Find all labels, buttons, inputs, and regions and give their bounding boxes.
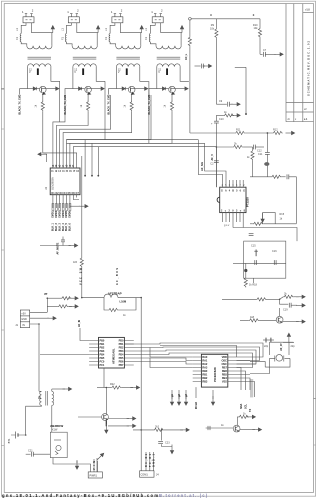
frame zone tick right 1 bbox=[314, 397, 316, 399]
IC U1 pin stubs top bbox=[53, 162, 77, 168]
vertical drop x267 bbox=[266, 133, 268, 152]
module left wire + junction bbox=[233, 262, 244, 264]
svg-text:RB7: RB7 bbox=[222, 365, 228, 369]
svg-text:PC1: PC1 bbox=[100, 363, 105, 367]
svg-text:PD3: PD3 bbox=[119, 349, 124, 353]
U5 left bottom wire bbox=[195, 387, 197, 398]
svg-text:PD6: PD6 bbox=[119, 359, 124, 363]
svg-text:B.torrent.at..(c): B.torrent.at..(c) bbox=[159, 493, 208, 498]
svg-text:C16: C16 bbox=[272, 250, 277, 253]
IC U3 bbox=[217, 187, 246, 212]
transformer unit 3 bbox=[105, 9, 149, 115]
svg-text:ATMEGA8L: ATMEGA8L bbox=[112, 348, 116, 364]
IC U5 left pin labels bbox=[202, 355, 208, 384]
Q3 emitter arrow bbox=[283, 321, 299, 323]
IC U5 pins right bbox=[228, 357, 256, 382]
transistor Q4 bbox=[233, 425, 240, 432]
svg-text:CMD6: CMD6 bbox=[69, 210, 72, 218]
svg-text:1k5: 1k5 bbox=[73, 261, 78, 264]
svg-text:2 c 2 9 3 o 8: 2 c 2 9 3 o 8 bbox=[221, 209, 246, 212]
Q3 base network bbox=[240, 319, 249, 321]
resistor R 1k5 bbox=[80, 257, 83, 267]
wire bus nest to U1 bbox=[43, 95, 217, 162]
svg-text:1k R18: 1k R18 bbox=[249, 284, 258, 287]
net arrow left of U1 bbox=[38, 153, 47, 156]
svg-text:OSC: OSC bbox=[221, 358, 227, 362]
svg-text:PD1: PD1 bbox=[119, 342, 124, 346]
svg-text:RA3: RA3 bbox=[202, 365, 208, 369]
stub end dots bbox=[84, 175, 99, 177]
mid verticals x198 x204 bbox=[198, 140, 226, 188]
bottom right resistor arrow bbox=[237, 416, 238, 418]
+5 stub rail bbox=[47, 297, 61, 299]
svg-text:L10M: L10M bbox=[120, 300, 127, 304]
svg-text:PD4: PD4 bbox=[119, 352, 124, 356]
svg-text:ULN2803A: ULN2803A bbox=[51, 177, 55, 190]
IC U4 left pin labels bbox=[100, 338, 105, 367]
svg-text:PD0: PD0 bbox=[119, 338, 124, 342]
IC U4 pins left bbox=[89, 341, 98, 366]
svg-text:I1 I2 I3 I4 I5 I6 I7 I8: I1 I2 I3 I4 I5 I6 I7 I8 bbox=[51, 170, 79, 173]
svg-text:C19: C19 bbox=[283, 308, 288, 311]
main rail y297.6 bbox=[82, 298, 141, 471]
svg-text:SDA: SDA bbox=[240, 404, 243, 409]
frame zone tick left 1 bbox=[1, 88, 4, 90]
svg-text:RA1: RA1 bbox=[202, 358, 208, 362]
resistor packs below U1 bbox=[52, 204, 71, 211]
cap C21 bbox=[26, 453, 31, 455]
svg-text:PB5: PB5 bbox=[100, 356, 105, 360]
svg-text:O1 O2 O3 O4 O5 O6 O7: O1 O2 O3 O4 O5 O6 O7 bbox=[51, 192, 79, 195]
svg-text:AB3RKW: AB3RKW bbox=[50, 424, 63, 428]
IC U1 bbox=[50, 168, 80, 195]
capacitor C7 with gnd arrow bbox=[260, 53, 263, 55]
svg-text:MCLR: MCLR bbox=[195, 402, 198, 409]
svg-text:4 5 6 9 8 7 2: 4 5 6 9 8 7 2 bbox=[222, 185, 246, 187]
bottom right electro caps bbox=[266, 338, 271, 343]
second stub bbox=[47, 305, 58, 307]
frame zone tick right 2 bbox=[314, 444, 316, 446]
svg-text:G A 4 B 5 6 G: G A 4 B 5 6 G bbox=[221, 189, 245, 192]
branch res to gnd y115 bbox=[216, 114, 223, 116]
svg-text:PB1: PB1 bbox=[100, 342, 105, 346]
bottom small transformer bbox=[40, 391, 54, 406]
transformer unit 1 bbox=[16, 9, 60, 115]
wire y176.8 with res and cap bbox=[250, 176, 271, 178]
svg-text:GND: GND bbox=[21, 318, 27, 321]
cap on main drop bbox=[214, 161, 219, 163]
net labels below U1 bbox=[52, 210, 72, 231]
branch cap to gnd y104 bbox=[216, 103, 226, 105]
svg-text:RB6: RB6 bbox=[222, 369, 228, 373]
svg-text:PD2: PD2 bbox=[119, 345, 124, 349]
revision table vertical text bbox=[288, 9, 311, 121]
frame zone tick left 2 bbox=[1, 128, 4, 130]
audio out row y299 bbox=[222, 298, 256, 300]
svg-text:COM1: COM1 bbox=[141, 474, 149, 477]
svg-text:BT1: BT1 bbox=[7, 438, 11, 443]
small jumper box bbox=[263, 213, 276, 224]
svg-text:PIC16F628: PIC16F628 bbox=[213, 367, 217, 382]
svg-text:BLK_6: BLK_6 bbox=[69, 222, 72, 231]
connector J2 bbox=[88, 472, 102, 478]
svg-text:RB3: RB3 bbox=[202, 379, 208, 383]
net label specks above U1 bbox=[52, 164, 75, 167]
svg-text:RX_D1: RX_D1 bbox=[145, 453, 148, 467]
svg-text:SCHEMATIC.REV.DOC.1.02: SCHEMATIC.REV.DOC.1.02 bbox=[306, 40, 310, 96]
svg-text:AF_SIG: AF_SIG bbox=[201, 162, 204, 171]
IC U4 right pin labels bbox=[119, 338, 124, 367]
up arrow gnd right bbox=[287, 333, 290, 342]
svg-text:OSC: OSC bbox=[221, 362, 227, 366]
transformer T2 wires bbox=[26, 389, 52, 435]
transistor Q3 bbox=[276, 316, 283, 323]
svg-text:R12: R12 bbox=[273, 129, 278, 132]
crystal circuit bbox=[250, 342, 293, 373]
RC net near J3 bbox=[133, 429, 154, 431]
svg-text:AF_V: AF_V bbox=[211, 154, 214, 161]
svg-text:VIN: VIN bbox=[93, 461, 96, 470]
svg-text:PB4: PB4 bbox=[100, 352, 105, 356]
svg-text:RB4: RB4 bbox=[222, 376, 228, 380]
transformer unit 2 bbox=[61, 9, 105, 115]
frame zone tick left 3 bbox=[1, 249, 4, 251]
capacitor on stub bbox=[61, 240, 65, 242]
svg-text:SCL: SCL bbox=[245, 404, 248, 409]
IC U3 pins bottom bbox=[223, 213, 244, 228]
J2 pins bbox=[94, 459, 98, 472]
stub wires right of U1 bbox=[85, 140, 98, 176]
down-arrow stubs group bbox=[172, 390, 186, 399]
svg-text:22p: 22p bbox=[264, 345, 269, 348]
IC U1 bracket arrow bbox=[79, 205, 88, 208]
svg-text:C12: C12 bbox=[257, 149, 262, 152]
top right rail bbox=[191, 19, 260, 28]
svg-text:dt: dt bbox=[288, 118, 290, 121]
IC U5 pins left bbox=[193, 357, 202, 382]
svg-text:VDD: VDD bbox=[222, 355, 227, 359]
svg-text:C21: C21 bbox=[28, 450, 33, 453]
U5 right wires to right bbox=[160, 346, 255, 398]
svg-text:RA2: RA2 bbox=[202, 362, 208, 366]
T4 feed resistor bbox=[189, 20, 191, 36]
svg-text:C10: C10 bbox=[219, 118, 224, 121]
cross resistor R13 bbox=[216, 146, 232, 148]
revision table top right bbox=[286, 4, 314, 122]
IC U3 bottom rail bbox=[233, 228, 297, 242]
battery BT1 bbox=[11, 432, 26, 439]
svg-text:PC0: PC0 bbox=[100, 359, 105, 363]
IC U4 pins right bbox=[124, 341, 150, 366]
rail y133 with R11 R12 bbox=[190, 132, 235, 134]
svg-text:C23: C23 bbox=[165, 442, 170, 445]
nest between U4 and U5 bbox=[124, 343, 263, 368]
IC U3 pins top bbox=[230, 180, 244, 187]
svg-text:AC_L: AC_L bbox=[185, 53, 188, 60]
svg-text:R11: R11 bbox=[236, 129, 241, 132]
IC U5 bbox=[201, 354, 227, 387]
electrolytic cap C on main drop bbox=[215, 115, 217, 121]
Q2 emitter bold bbox=[105, 421, 107, 427]
J3 pin labels bbox=[145, 453, 155, 467]
svg-text:RB5: RB5 bbox=[222, 372, 228, 376]
svg-text:PB2: PB2 bbox=[100, 345, 105, 349]
svg-text:g s v: g s v bbox=[224, 224, 230, 227]
module bottom resistor bbox=[253, 278, 255, 283]
J2 arrow bbox=[96, 452, 105, 461]
module box bbox=[244, 241, 286, 278]
transformer unit 4 bbox=[145, 9, 189, 115]
connector J5 bbox=[20, 310, 29, 328]
svg-text:R15: R15 bbox=[280, 213, 285, 216]
Q4 emitter arrow bbox=[240, 429, 255, 431]
wire y67 to junction bbox=[235, 66, 246, 68]
svg-text:RB0: RB0 bbox=[202, 369, 208, 373]
svg-text:PWR1: PWR1 bbox=[90, 473, 98, 477]
svg-text:22p: 22p bbox=[291, 345, 296, 348]
grey bar artifact bbox=[250, 379, 253, 397]
IC U1 pin stubs bottom bbox=[53, 195, 80, 208]
relay box K1 bbox=[50, 432, 67, 457]
IC U4 bbox=[99, 337, 125, 368]
svg-text:AF_IN: AF_IN bbox=[78, 320, 81, 327]
Q4 base wire bbox=[206, 427, 234, 429]
svg-text:IN: IN bbox=[22, 324, 25, 327]
svg-text:VP: VP bbox=[44, 293, 48, 296]
svg-text:AF_XT: AF_XT bbox=[280, 343, 283, 351]
svg-text:RB1: RB1 bbox=[202, 372, 208, 376]
resistor R10 bbox=[258, 28, 261, 38]
svg-text:2k2: 2k2 bbox=[155, 426, 160, 429]
wire y223.8 with res bbox=[250, 223, 253, 225]
svg-text:r1.0: r1.0 bbox=[306, 9, 311, 12]
Q2 second arrow bbox=[108, 425, 129, 427]
transistor Q2 mid bottom bbox=[102, 414, 109, 421]
svg-text:C15: C15 bbox=[251, 245, 256, 248]
svg-text:RB2: RB2 bbox=[202, 376, 208, 380]
svg-text:PB0: PB0 bbox=[100, 338, 105, 342]
svg-text:PB3: PB3 bbox=[100, 349, 105, 353]
svg-text:AF_BUS: AF_BUS bbox=[116, 268, 119, 285]
small cap arrow near T4 bbox=[195, 65, 201, 67]
cap below out bbox=[280, 299, 289, 304]
connector J3 bbox=[140, 471, 154, 477]
junction blob bbox=[264, 162, 269, 166]
U4 left wire long bbox=[40, 354, 89, 356]
module internals bbox=[244, 250, 286, 264]
svg-text:C11: C11 bbox=[258, 153, 263, 156]
J5 wires bbox=[30, 312, 49, 391]
frame zone tick left 5 bbox=[1, 445, 4, 447]
svg-text:VSS: VSS bbox=[222, 379, 227, 383]
svg-text:R22: R22 bbox=[110, 383, 115, 386]
svg-text:VCC_SW: VCC_SW bbox=[80, 267, 83, 285]
svg-text:+5V: +5V bbox=[21, 312, 26, 315]
unit drop wires into bus bbox=[60, 81, 190, 143]
gnd arrow below relay bbox=[76, 461, 78, 463]
net labels below U5 bbox=[195, 402, 252, 412]
svg-text:TX: TX bbox=[249, 408, 252, 412]
svg-text:PD7: PD7 bbox=[119, 363, 124, 367]
left vertical long wire bbox=[81, 156, 83, 257]
svg-text:K1W: K1W bbox=[52, 429, 58, 432]
junction dot bbox=[245, 113, 247, 115]
lower-left stub circuit bbox=[40, 237, 71, 246]
vertical resistor R14 bbox=[252, 147, 254, 150]
svg-text:AF_MUTE: AF_MUTE bbox=[57, 242, 60, 254]
trap inductor L10 bbox=[104, 294, 118, 297]
J3 pin wires bbox=[146, 452, 153, 471]
trap resistor R20 bbox=[104, 298, 136, 310]
relay bottom wires bbox=[53, 458, 97, 472]
svg-text:PD5: PD5 bbox=[119, 356, 124, 360]
resistor R9 bbox=[215, 28, 218, 38]
title footer text bbox=[2, 493, 208, 498]
U4 bottom resistor arrow bbox=[103, 368, 105, 388]
frame zone tick left 4 bbox=[1, 329, 4, 331]
svg-text:PT2258: PT2258 bbox=[246, 197, 250, 207]
IC U5 right pin labels bbox=[221, 355, 227, 384]
node circle T4 feed bbox=[189, 18, 192, 21]
module cap C13 bbox=[249, 234, 254, 236]
svg-text:1k8: 1k8 bbox=[250, 316, 255, 319]
svg-text:RA0: RA0 bbox=[202, 355, 208, 359]
